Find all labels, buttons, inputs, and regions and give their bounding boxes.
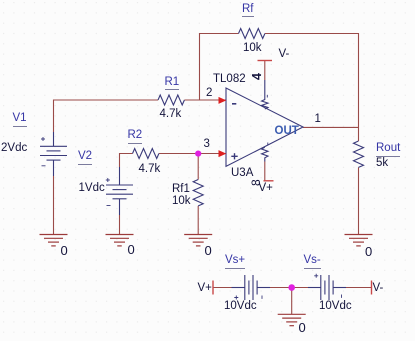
wire: V2 bottom to ground [119,215,121,235]
V- rail port bar (bottom right) [371,281,373,295]
op-amp pin 8 power stub with squiggle [262,147,268,161]
wire: Vs+ to center junction to Vs- [270,287,308,289]
wire: junction drop to Rf1 [197,154,199,180]
V- power port bar (top) [258,60,273,62]
value 4.7k (R1) [160,109,182,121]
resistor Rf1 body [193,180,203,206]
V1 plus mark [41,137,45,141]
V2 plus mark [106,178,110,182]
V+ rail port bar (bottom left) [212,281,214,295]
ground at V2 [106,234,134,236]
source V2 pin stubs [119,167,121,185]
pin 2 input arrow [219,97,227,104]
op-amp plus input marker [231,153,237,159]
net label V+ (below op-amp) [259,183,273,195]
pin number 1 [315,114,321,126]
pin number 8 (rotated) [250,176,262,186]
junction dot at supply rail center [288,284,295,291]
wire: op-amp output pin 1 [303,126,359,128]
wire: V1 bottom to ground [53,176,55,235]
label Vs- [304,255,321,269]
value 10Vdc (Vs-) [319,301,352,313]
wire: Rf1 bottom to ground [197,206,199,235]
op-amp pin 4 power stub with squiggle [262,80,268,109]
ground 0 label (Rout) [365,245,372,258]
resistor R1 body [158,95,184,105]
label Rout [376,143,400,157]
wire: V- port lead to pin 4 [264,61,266,81]
source Vs+ battery plates [245,275,257,300]
V2 minus mark [107,205,111,207]
label R1 [165,77,180,91]
ground at Rout [345,234,373,236]
wire: V1 top riser [54,100,159,132]
op-amp minus input marker [232,103,236,105]
value 5k [376,158,388,170]
label Vs+ [225,255,245,269]
wire: Vs- to V- rail port [346,287,372,289]
label V1 [13,113,27,127]
source V1 pin stubs [53,132,55,146]
wire: center junction drop to ground [291,288,293,315]
label Rf [242,4,254,18]
label OUT [275,126,299,138]
label U3A [231,168,253,180]
port label V- (rail right) [373,283,384,295]
V1 minus mark [42,165,46,167]
Vs+ minus mark [261,296,263,299]
junction dot at pin 3 node [195,151,201,157]
pin number 2 [206,88,212,100]
wire: pin 8 to V+ port [264,162,266,181]
pin 3 input arrow [219,150,227,157]
value 10Vdc (Vs+) [224,301,257,313]
ground 0 label (V1) [61,244,68,257]
value 1Vdc [79,183,105,195]
value 4.7k (R2) [139,164,161,176]
resistor Rout body [354,141,364,167]
label Rf1 [172,184,190,196]
label V2 [78,151,92,165]
label R2 [128,130,143,144]
Vs- minus mark [341,295,343,298]
V+ power port bar (below op-amp) [264,180,274,182]
source Vs- lead stubs [308,287,321,289]
source V1 battery plates [40,146,67,160]
Vs- plus mark [314,274,318,278]
source Vs+ lead stubs [232,287,245,289]
ground at supply rail center [278,313,306,315]
wire: feedback riser to Rf [200,34,239,101]
value 2Vdc [1,143,27,155]
wire: Rf right to output drop [265,34,359,142]
pin number 4 (rotated) [251,69,264,80]
wire: Rout bottom to ground [358,167,360,234]
wire: R2 output to pin 3 [159,153,226,155]
pin number 3 [204,139,210,151]
value 10k (Rf1) [172,196,191,208]
Vs+ plus mark [234,296,238,300]
port label V+ (rail left) [198,283,212,295]
value 10k (Rf) [243,43,262,55]
resistor Rf body [239,29,265,39]
ground at V1 [40,234,68,236]
net label V- (top) [279,49,290,61]
label TL082 [213,74,246,86]
resistor R2 body [133,149,159,159]
ground 0 label (Rf1) [205,244,212,257]
ground at Rf1 [184,234,212,236]
op-amp U3A triangle [226,88,303,166]
wire: V+ rail to Vs+ [213,287,232,289]
source Vs- battery plates [321,275,333,300]
wire: V2 riser to R2 [120,154,133,168]
source V2 battery plates [106,185,133,199]
wire: R1 output to pin 2 [184,99,225,101]
ground 0 label (V2) [128,243,135,256]
ground 0 label (rail) [299,321,306,334]
